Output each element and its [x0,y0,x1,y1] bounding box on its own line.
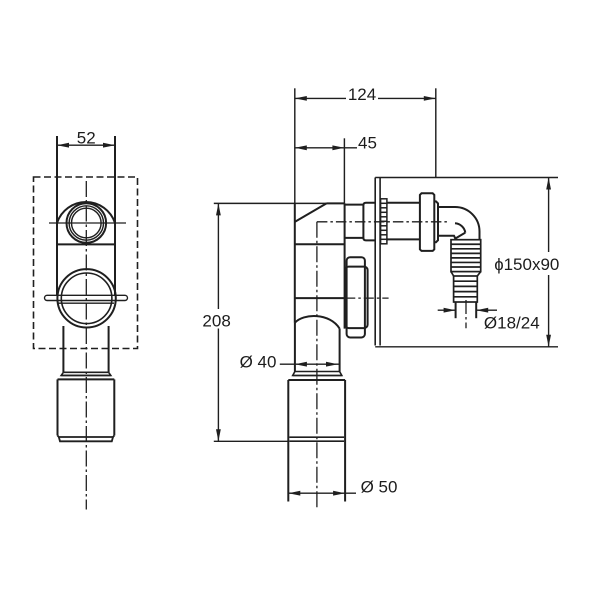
cleaning cover outer circle [57,269,115,327]
dim O50 dimension line [288,492,356,494]
plate bottom edge + 150 extension line [375,346,558,348]
dim 208 arrow down [216,429,221,441]
body right edge [344,203,346,328]
elbow bottom edge [438,236,456,240]
dim 124 arrow left [295,96,307,101]
cup bottom line upper [58,436,115,438]
dim 52 extension line left / body left edge [56,136,58,296]
svg-text:52: 52 [77,129,96,148]
right cup right wall [344,380,346,502]
body joint line lower [295,297,346,299]
lower pipe left wall [62,326,64,372]
left view vertical centre line [85,181,87,510]
cup bottom line lower [59,437,113,441]
hose centre line [465,300,467,328]
inlet socket inner circle [72,208,102,238]
cover slot line [58,302,114,304]
right collar flare [293,372,342,376]
dim 208 dimension line lower [217,329,219,442]
dim O40 dimension line [280,363,340,365]
right pipe left wall [294,323,296,372]
side outlet tall rounded rect [347,257,365,337]
dim phi150x90 dimension line lower [548,275,550,347]
side outlet short rounded rect [345,267,367,329]
hood bottom joint line [57,243,115,245]
collar top line [63,371,108,373]
dim 124 dimension line [295,97,436,99]
svg-text:ɸ150x90: ɸ150x90 [494,255,559,274]
internal axis corner: vertical [316,222,318,510]
outlet socket section 1 top [345,204,364,206]
union nut body [420,193,434,251]
wall plate back face [379,178,381,346]
svg-text:45: 45 [358,134,377,153]
inlet socket middle circle [69,206,103,240]
dim 52 arrow right [103,143,115,148]
outlet socket section 1 bottom [345,237,364,239]
dim O18/24 right leader [476,309,497,311]
cup top edge [58,378,115,380]
right cup left wall [287,380,289,502]
svg-text:124: 124 [348,85,376,104]
elbow outer profile [438,207,480,240]
pipe to nut top [387,202,420,204]
dim 208 arrow up [216,203,221,215]
dim 52 arrow left [57,143,69,148]
dim 124 arrow right [424,96,436,101]
internal axis corner: horizontal [317,221,449,223]
dim 45 dimension line [295,147,357,149]
body shoulder dome [295,316,340,329]
collar mid line [61,374,111,376]
right cup joint line upper [289,436,344,438]
dim phi150x90 dimension line upper [548,178,550,253]
socket horizontal centre mark [49,222,126,224]
dim 52 extension line right / body right edge [114,136,116,296]
dim 45 arrow right [332,145,344,150]
cover pin bar (capsule) [45,295,128,300]
hose taper right [477,272,480,276]
svg-text:Ø 40: Ø 40 [240,352,277,371]
dim O18/24 arrow right [476,308,488,313]
dashed installation box [34,177,138,349]
pipe to nut bottom [387,238,420,240]
lower pipe right wall [108,326,110,372]
thread ribs column [381,199,387,244]
hose taper left [451,272,454,276]
outlet sleeve rounded rect [363,203,376,241]
right collar mid line [293,375,342,377]
hose end pipe right wall [475,302,477,318]
body chamfer [295,203,327,222]
body top edge [327,202,345,204]
dim 124 left extension line [294,88,296,203]
svg-text:Ø18/24: Ø18/24 [484,313,540,332]
right cup top edge [288,379,345,381]
dim 45 arrow left [295,145,307,150]
plate top edge + 150 extension line [375,177,558,179]
elbow inner arc [455,223,465,232]
dim 124 right extension line [435,88,437,177]
dim O40 arrow left [295,362,307,367]
hose upper corrugation band [451,240,481,272]
dim 45 extension line [343,138,345,203]
dim O18/24 left leader [438,309,456,311]
dim O18/24 arrow left [444,308,456,313]
dim phi150x90 arrow down [546,335,551,347]
hood arc over inlet socket [57,202,115,223]
hose end pipe left wall [455,302,457,318]
collar flare [61,372,111,375]
dim O50 arrow left [288,491,300,496]
right collar top line [295,371,340,373]
hose lower corrugation band [454,276,478,302]
dim 52 dimension line [57,144,115,146]
svg-text:208: 208 [202,311,230,330]
dim O40 arrow right [326,362,338,367]
dim O50 arrow right [333,491,345,496]
right pipe right wall [339,329,341,372]
elbow miter line [455,233,466,239]
dim 208 top extension line [214,202,327,204]
cleaning cover inner circle [61,273,112,324]
dim 208 bottom extension line [214,440,288,442]
dim phi150x90 arrow up [546,178,551,190]
cup left wall [57,379,59,435]
body joint line upper [295,243,345,245]
dim 208 dimension line upper [217,203,219,309]
outlet axis dash-dot continuation [345,297,388,299]
wall plate front face [374,178,376,346]
body left edge [294,203,296,323]
cup right wall [113,379,115,435]
right cup joint line lower [289,440,344,442]
inlet socket outer circle [67,203,107,243]
svg-text:Ø 50: Ø 50 [361,477,398,496]
union nut collar [434,201,438,242]
